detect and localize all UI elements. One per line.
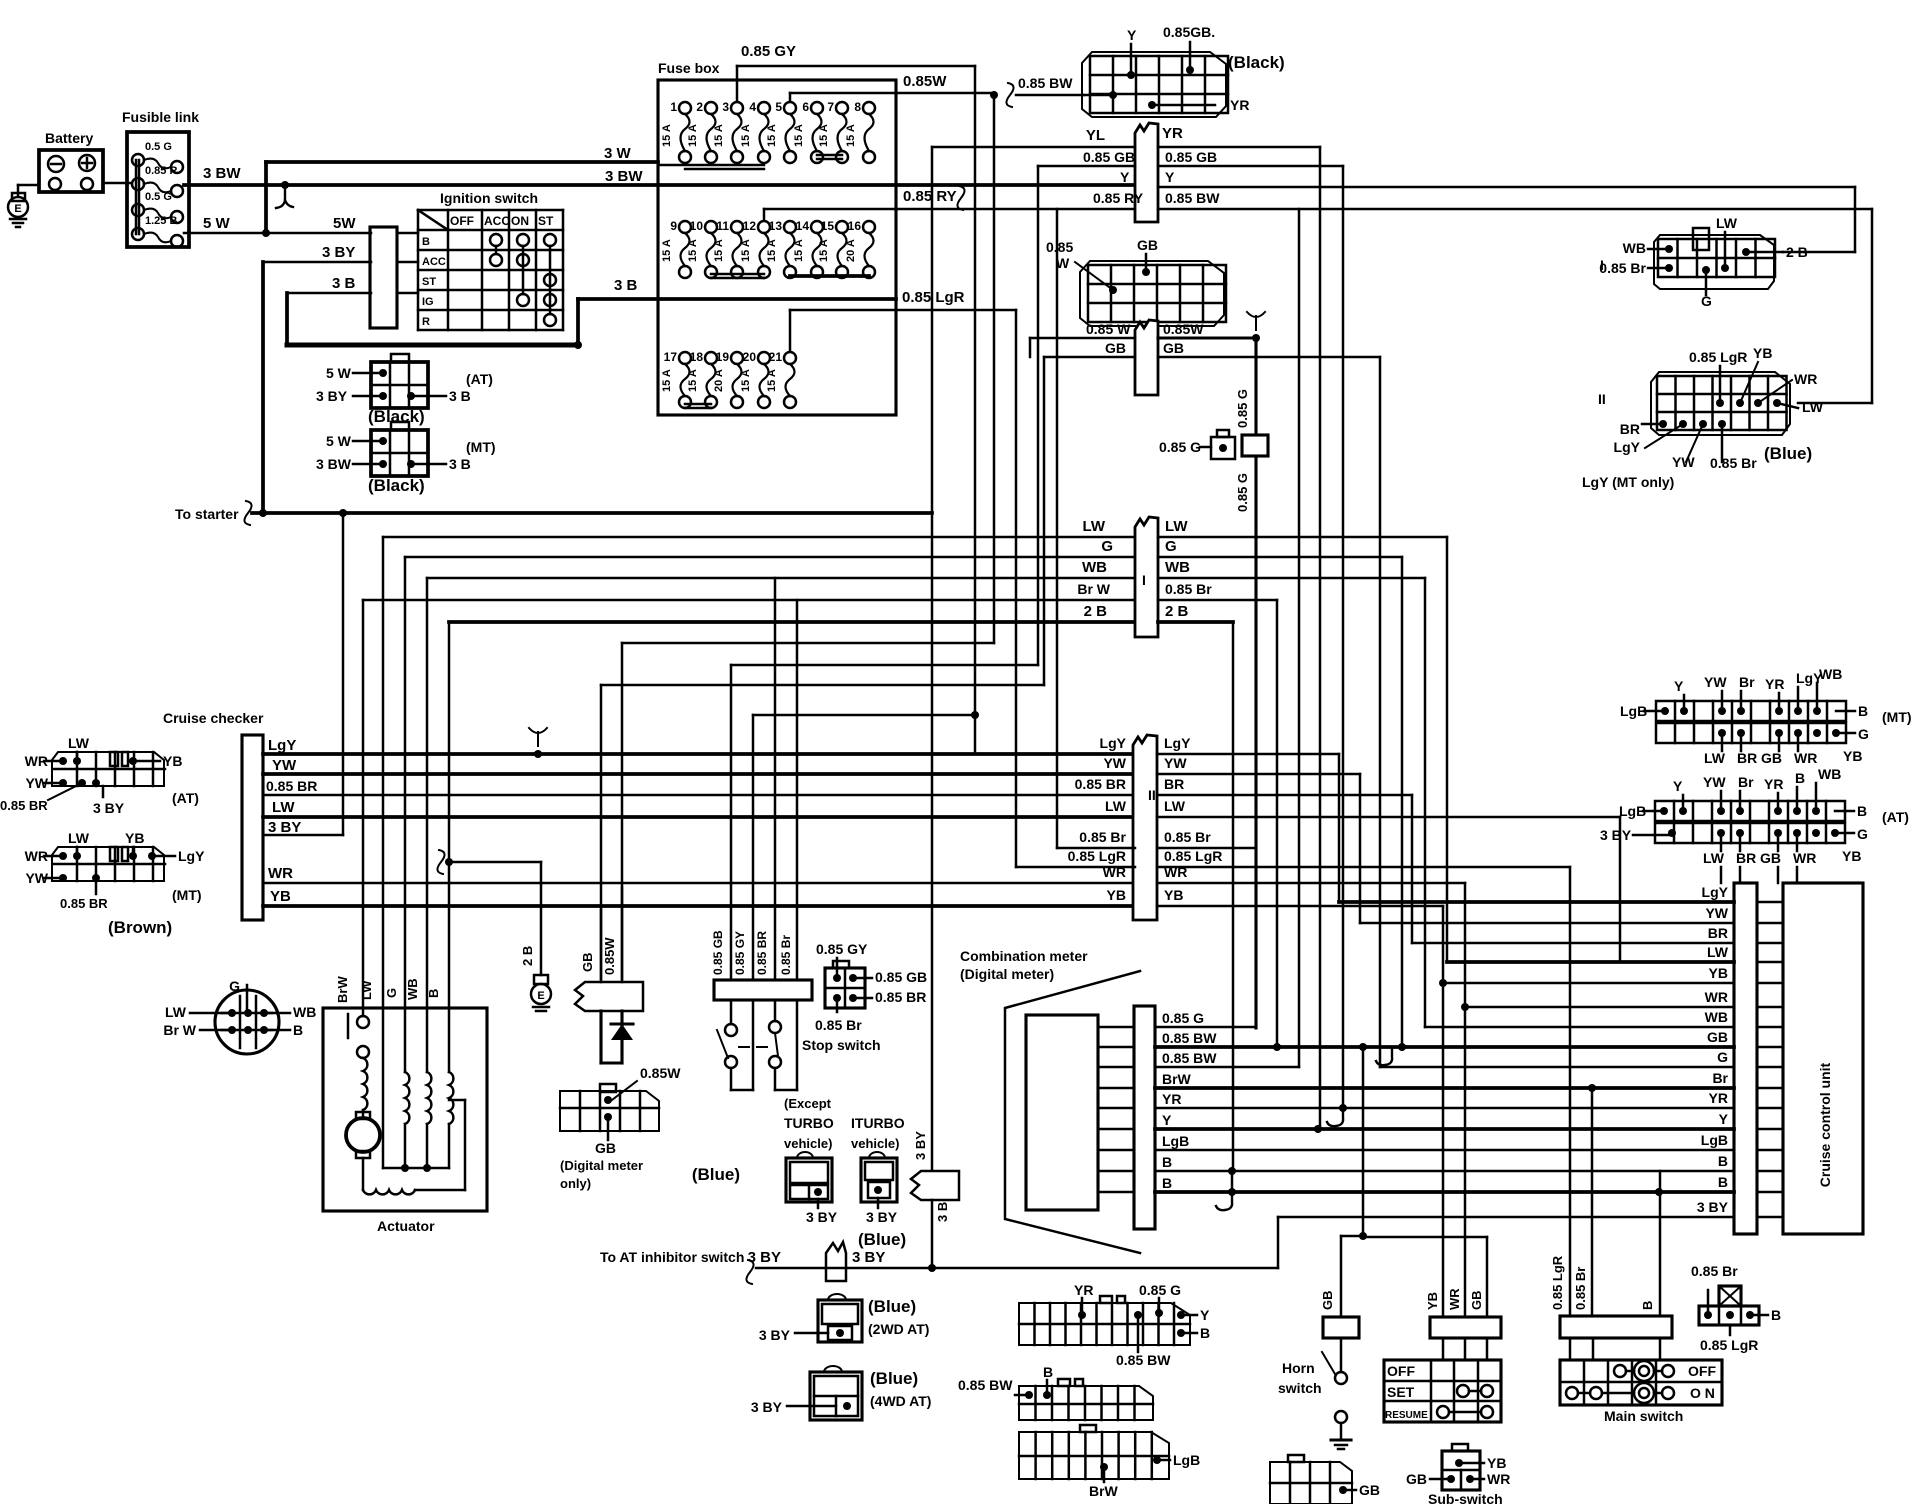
svg-text:0.85 BW: 0.85 BW <box>1162 1030 1217 1046</box>
svg-text:0.85W: 0.85W <box>602 937 617 975</box>
svg-text:WB: WB <box>1818 766 1841 782</box>
wires ignition to connector <box>397 232 418 235</box>
wire GB to horn <box>1359 1043 1367 1051</box>
svg-text:9: 9 <box>670 219 677 233</box>
fuse row2 bus <box>711 273 764 276</box>
connector (MT) black <box>371 430 428 476</box>
svg-text:0.85 G: 0.85 G <box>1235 389 1250 428</box>
svg-text:OFF: OFF <box>1387 1363 1415 1379</box>
wire LgY right of II <box>1157 753 1339 756</box>
svg-text:BR: BR <box>1737 750 1757 766</box>
wire YB long row <box>1443 982 1734 985</box>
svg-text:B: B <box>1162 1154 1172 1170</box>
svg-text:(MT): (MT) <box>466 439 496 455</box>
inline connector I <box>1135 517 1158 637</box>
wire 0.85G row <box>1155 1026 1254 1029</box>
wire YR meter row <box>1098 1107 1134 1110</box>
svg-text:ACC: ACC <box>484 214 510 228</box>
connector (Blue) 4WD AT <box>810 1372 862 1420</box>
svg-text:WB: WB <box>405 978 420 1000</box>
svg-text:YB: YB <box>1425 1292 1440 1310</box>
svg-text:(Blue): (Blue) <box>692 1165 740 1184</box>
actuator switch <box>362 1008 365 1016</box>
svg-text:3: 3 <box>722 100 729 114</box>
svg-text:(MT): (MT) <box>1882 709 1912 725</box>
wire YW right of II <box>1157 773 1360 776</box>
actuator motor <box>346 1118 380 1152</box>
svg-text:WB: WB <box>1082 559 1107 576</box>
svg-text:BR: BR <box>1708 925 1728 941</box>
wire 0.85BW vertical <box>1298 209 1301 1047</box>
svg-text:2 B: 2 B <box>520 946 535 966</box>
svg-text:LW: LW <box>1716 215 1738 231</box>
wire WB right of I <box>1158 577 1425 580</box>
horn switch <box>1340 1338 1343 1372</box>
svg-text:B: B <box>422 236 430 248</box>
connector I (WB/2B) right top <box>1654 235 1774 289</box>
svg-text:15 A: 15 A <box>818 124 830 147</box>
svg-text:5 W: 5 W <box>326 433 352 449</box>
svg-text:0.85 LgR: 0.85 LgR <box>1689 349 1747 365</box>
svg-text:YB: YB <box>270 888 291 905</box>
wire LgB meter row <box>1098 1149 1134 1152</box>
svg-text:0.85 BR: 0.85 BR <box>755 931 769 975</box>
wire BrW/Br row <box>1155 1086 1734 1090</box>
combination meter connector bar <box>1134 1006 1155 1229</box>
svg-text:LW: LW <box>68 830 90 846</box>
svg-text:3 BW: 3 BW <box>316 456 352 472</box>
wire 0.85 BW meter row <box>1098 1046 1134 1049</box>
wire 2B right of I <box>1158 620 1233 624</box>
svg-text:Br: Br <box>1739 674 1755 690</box>
svg-text:To starter: To starter <box>175 506 239 522</box>
fuse row1 bus <box>658 164 764 167</box>
svg-text:0.85 LgR: 0.85 LgR <box>902 289 965 306</box>
svg-text:LgY: LgY <box>268 737 296 754</box>
svg-text:0.85 W: 0.85 W <box>1086 321 1131 337</box>
svg-text:BrW: BrW <box>1089 1483 1119 1499</box>
svg-text:0.85 GB: 0.85 GB <box>1083 149 1135 165</box>
svg-text:2 B: 2 B <box>1165 603 1189 620</box>
svg-text:3 B: 3 B <box>449 388 471 404</box>
svg-text:11: 11 <box>716 219 729 233</box>
svg-text:(MT): (MT) <box>172 887 202 903</box>
svg-text:0.85 GY: 0.85 GY <box>816 941 868 957</box>
wire B to main switch <box>1659 1192 1662 1316</box>
svg-text:YB: YB <box>163 753 182 769</box>
connector YB/WR/GB <box>1430 1317 1501 1338</box>
wire 0.85Br left of II <box>1057 847 1135 850</box>
svg-text:1: 1 <box>670 100 677 114</box>
svg-text:5 W: 5 W <box>203 215 231 232</box>
connector (MT) 20-pin <box>1656 701 1846 721</box>
svg-text:ST: ST <box>422 276 436 288</box>
wire B meter row <box>1098 1170 1134 1173</box>
svg-text:0.85 BR: 0.85 BR <box>1075 776 1126 792</box>
svg-text:3 BY: 3 BY <box>806 1209 838 1225</box>
svg-text:WR: WR <box>1487 1471 1510 1487</box>
svg-text:GB: GB <box>595 1140 616 1156</box>
svg-text:15 A: 15 A <box>661 124 673 147</box>
svg-text:3 BW: 3 BW <box>605 168 643 185</box>
svg-text:To AT inhibitor switch: To AT inhibitor switch <box>600 1249 744 1265</box>
svg-text:Br W: Br W <box>163 1022 196 1038</box>
svg-text:WR: WR <box>1705 989 1728 1005</box>
svg-text:15 A: 15 A <box>661 369 673 392</box>
svg-text:TURBO: TURBO <box>784 1115 834 1131</box>
ignition switch connector bar <box>370 227 397 328</box>
svg-text:13: 13 <box>769 219 783 233</box>
svg-text:WR: WR <box>268 865 293 882</box>
svg-text:3 BY: 3 BY <box>316 388 348 404</box>
svg-text:14: 14 <box>796 219 810 233</box>
svg-text:II: II <box>1598 391 1606 407</box>
wire G right of I <box>1158 556 1402 559</box>
svg-text:I: I <box>1600 257 1604 273</box>
svg-text:3 BY: 3 BY <box>748 1249 781 1266</box>
svg-text:15 A: 15 A <box>740 239 752 262</box>
wire 0.85BW row 2 <box>1155 1066 1299 1069</box>
svg-text:YB: YB <box>1164 887 1183 903</box>
svg-text:15 A: 15 A <box>740 369 752 392</box>
svg-text:0.85 Br: 0.85 Br <box>1573 1267 1588 1310</box>
svg-text:LW: LW <box>68 735 90 751</box>
wire B meter row <box>1098 1191 1134 1194</box>
svg-text:YR: YR <box>1162 1091 1181 1107</box>
svg-text:YR: YR <box>1764 776 1783 792</box>
svg-text:WB: WB <box>1623 240 1646 256</box>
connector 0.85GY 4-pin <box>825 968 865 1008</box>
svg-text:GB: GB <box>1359 1482 1380 1498</box>
wire 0.85W riser <box>621 643 624 982</box>
wire 2B to ground branch <box>437 850 444 874</box>
svg-text:0.85 Br: 0.85 Br <box>815 1017 862 1033</box>
svg-text:vehicle): vehicle) <box>784 1136 832 1151</box>
svg-text:0.85 LgR: 0.85 LgR <box>1700 1337 1758 1353</box>
wire 0.85Br right of I <box>1158 599 1277 602</box>
svg-text:(Black): (Black) <box>368 476 425 495</box>
svg-text:3 BW: 3 BW <box>203 165 241 182</box>
svg-text:3 BY: 3 BY <box>93 800 125 816</box>
svg-text:3 BY: 3 BY <box>322 244 355 261</box>
svg-text:3 BY: 3 BY <box>852 1249 885 1266</box>
svg-text:0.85 BR: 0.85 BR <box>875 989 926 1005</box>
ground hook on 3BW <box>276 185 293 208</box>
wire LgY long row <box>1339 900 1734 904</box>
wire 3BY bottom row <box>1278 1216 1734 1219</box>
svg-text:WB: WB <box>1165 559 1190 576</box>
svg-text:LgY (MT only): LgY (MT only) <box>1582 474 1674 490</box>
svg-text:0.85 GB: 0.85 GB <box>1165 149 1217 165</box>
svg-text:G: G <box>384 988 399 998</box>
svg-text:BR: BR <box>1620 421 1640 437</box>
svg-text:Y: Y <box>1673 778 1683 794</box>
svg-text:GB: GB <box>1406 1471 1427 1487</box>
cruise control unit bar <box>1734 883 1757 1234</box>
svg-text:(Except: (Except <box>784 1096 832 1111</box>
connector bottom-left grid <box>1270 1462 1352 1504</box>
connector 18-pin (GB/0.85W) <box>1080 261 1224 326</box>
wire 0.85BW/GB row <box>1155 1045 1734 1049</box>
actuator box <box>323 1008 487 1211</box>
svg-text:W: W <box>1056 255 1070 271</box>
svg-text:15 A: 15 A <box>740 124 752 147</box>
svg-text:3 B: 3 B <box>332 275 356 292</box>
fuse row 2 (fuses 9-16) <box>679 221 691 233</box>
svg-text:Cruise control unit: Cruise control unit <box>1817 1062 1833 1187</box>
svg-text:GB: GB <box>1760 850 1781 866</box>
connector (Blue) turbo <box>786 1158 832 1202</box>
svg-text:0.85 Br: 0.85 Br <box>1599 260 1646 276</box>
svg-text:B: B <box>1795 770 1805 786</box>
svg-text:(AT): (AT) <box>466 371 493 387</box>
svg-text:ITURBO: ITURBO <box>851 1115 905 1131</box>
svg-text:LgY: LgY <box>1614 439 1641 455</box>
svg-text:(AT): (AT) <box>1882 809 1909 825</box>
svg-text:15 A: 15 A <box>845 124 857 147</box>
svg-text:Sub-switch: Sub-switch <box>1428 1491 1503 1504</box>
fuse row 3 (fuses 17-21) <box>679 352 691 364</box>
svg-text:3 BY: 3 BY <box>751 1399 783 1415</box>
wire Y row <box>1155 1127 1734 1131</box>
svg-text:0.85 LgR: 0.85 LgR <box>1068 848 1126 864</box>
svg-text:(Blue): (Blue) <box>870 1369 918 1388</box>
svg-text:Y: Y <box>1127 27 1137 43</box>
svg-text:6: 6 <box>802 100 809 114</box>
svg-text:R: R <box>422 316 430 328</box>
svg-text:19: 19 <box>716 350 730 364</box>
svg-text:LW: LW <box>1165 518 1188 535</box>
svg-text:WB: WB <box>1705 1009 1728 1025</box>
svg-text:ST: ST <box>538 214 554 228</box>
wire YL/YR row <box>932 146 1135 149</box>
wire 0.85 G meter row <box>1098 1026 1134 1029</box>
svg-text:3 W: 3 W <box>604 145 632 162</box>
svg-text:Y: Y <box>1674 678 1684 694</box>
svg-text:15 A: 15 A <box>713 239 725 262</box>
svg-text:WR: WR <box>1794 371 1817 387</box>
svg-text:3 BY: 3 BY <box>913 1131 928 1160</box>
connector (AT) brown <box>52 752 164 786</box>
svg-text:GB: GB <box>580 953 595 973</box>
svg-text:12: 12 <box>743 219 757 233</box>
svg-text:0.85 Br: 0.85 Br <box>1691 1263 1738 1279</box>
svg-text:ACC: ACC <box>422 256 446 268</box>
svg-text:YB: YB <box>1753 345 1772 361</box>
svg-text:17: 17 <box>664 350 678 364</box>
connector (Blue) 2WD AT <box>818 1300 862 1342</box>
svg-text:(Digital meter: (Digital meter <box>560 1158 643 1173</box>
svg-text:Br: Br <box>1738 774 1754 790</box>
svg-text:SET: SET <box>1387 1384 1415 1400</box>
wire 0.85BW to black connector <box>1006 83 1013 107</box>
svg-text:II: II <box>1148 787 1156 803</box>
svg-text:0.85 GY: 0.85 GY <box>733 931 747 975</box>
wire 2B to connector I <box>449 620 1135 624</box>
svg-text:0.85W: 0.85W <box>1163 321 1204 337</box>
svg-text:1.25 B: 1.25 B <box>145 215 177 227</box>
wire 0.85Br right of II <box>1157 847 1254 850</box>
svg-text:BrW: BrW <box>1162 1071 1192 1087</box>
connector (AT) 20-pin <box>1655 801 1845 821</box>
svg-text:(4WD AT): (4WD AT) <box>870 1393 931 1409</box>
svg-text:Main switch: Main switch <box>1604 1408 1683 1424</box>
svg-text:(Brown): (Brown) <box>108 918 172 937</box>
connector digital meter GB <box>560 1091 659 1131</box>
svg-text:15 A: 15 A <box>687 124 699 147</box>
svg-text:B: B <box>293 1022 303 1038</box>
wire GB row mid <box>1044 356 1135 359</box>
svg-text:YW: YW <box>272 757 297 774</box>
connector 24-pin (YR/Y/B) <box>1019 1303 1190 1345</box>
svg-text:WB: WB <box>1819 666 1842 682</box>
svg-text:BrW: BrW <box>335 976 350 1003</box>
svg-text:8: 8 <box>854 100 861 114</box>
svg-text:YW: YW <box>1103 755 1126 771</box>
svg-text:YB: YB <box>1843 748 1862 764</box>
fuse row 1 (fuses 1-8) <box>679 102 691 114</box>
wire LW right of I <box>1158 536 1447 539</box>
wire battery to fusible link <box>103 182 131 185</box>
wire 0.85Br to main switch <box>1591 1088 1594 1316</box>
svg-text:YR: YR <box>1230 97 1249 113</box>
svg-text:20 A: 20 A <box>713 369 725 392</box>
svg-text:Fusible link: Fusible link <box>122 109 199 125</box>
svg-text:Y: Y <box>1120 169 1130 185</box>
connector II (Blue) right <box>1651 372 1790 435</box>
svg-text:GB: GB <box>1320 1291 1335 1311</box>
wire G long row <box>1380 1066 1734 1069</box>
wire LW right of II <box>1157 816 1620 819</box>
wire YW long row <box>1360 922 1734 925</box>
svg-text:OFF: OFF <box>450 214 474 228</box>
svg-text:B: B <box>1718 1174 1728 1190</box>
svg-text:B: B <box>1200 1325 1210 1341</box>
svg-text:15 A: 15 A <box>661 239 673 262</box>
wire LW long row <box>1447 960 1734 964</box>
svg-text:(Black): (Black) <box>1228 53 1285 72</box>
svg-text:YR: YR <box>1074 1282 1093 1298</box>
svg-text:GB: GB <box>1707 1029 1728 1045</box>
svg-text:0.85 G: 0.85 G <box>1159 439 1201 455</box>
actuator bus <box>383 1167 449 1170</box>
wire Y meter row <box>1098 1128 1134 1131</box>
svg-text:0.85 BW: 0.85 BW <box>1162 1050 1217 1066</box>
svg-text:G: G <box>1717 1049 1728 1065</box>
svg-text:ON: ON <box>511 214 529 228</box>
svg-text:20: 20 <box>743 350 757 364</box>
svg-text:0.85 LgR: 0.85 LgR <box>1550 1255 1565 1310</box>
main switch table <box>1560 1360 1722 1405</box>
svg-text:Cruise checker: Cruise checker <box>163 710 264 726</box>
svg-text:LW: LW <box>165 1004 187 1020</box>
svg-text:(2WD AT): (2WD AT) <box>868 1321 929 1337</box>
svg-text:switch: switch <box>1278 1380 1322 1396</box>
svg-text:0.85 LgR: 0.85 LgR <box>1164 848 1222 864</box>
svg-text:Ignition switch: Ignition switch <box>440 190 538 206</box>
svg-text:E: E <box>14 203 21 215</box>
svg-text:0.85 G: 0.85 G <box>1162 1010 1204 1026</box>
svg-text:WB: WB <box>293 1004 316 1020</box>
wire WB long row <box>1425 1026 1734 1029</box>
svg-text:15 A: 15 A <box>766 124 778 147</box>
svg-text:Y: Y <box>1200 1307 1210 1323</box>
svg-text:(Blue): (Blue) <box>858 1230 906 1249</box>
wire GB branch to sub connector box <box>1363 1236 1487 1239</box>
svg-text:LgY: LgY <box>1702 884 1729 900</box>
svg-text:G: G <box>1165 538 1177 555</box>
svg-text:B: B <box>1857 803 1867 819</box>
wire G to connector I <box>405 556 1135 559</box>
svg-text:20 A: 20 A <box>845 239 857 262</box>
svg-text:YR: YR <box>1162 125 1183 142</box>
svg-text:21: 21 <box>769 350 783 364</box>
svg-text:0.85 Br: 0.85 Br <box>1165 581 1212 597</box>
svg-text:3 B: 3 B <box>614 277 638 294</box>
svg-text:7: 7 <box>827 100 834 114</box>
svg-text:YW: YW <box>1705 905 1728 921</box>
svg-text:G: G <box>1858 726 1869 742</box>
svg-text:YW: YW <box>1672 454 1695 470</box>
svg-text:0.85 GB: 0.85 GB <box>875 969 927 985</box>
svg-text:vehicle): vehicle) <box>851 1136 899 1151</box>
svg-text:0.85 RY: 0.85 RY <box>903 188 957 205</box>
wire 0.85LgR left of II <box>1016 866 1135 869</box>
wire GB riser <box>600 685 603 982</box>
svg-text:3 BY: 3 BY <box>1697 1199 1729 1215</box>
fuse GB (horn) <box>1323 1317 1359 1338</box>
svg-text:LW: LW <box>1164 798 1186 814</box>
svg-text:0.85 G: 0.85 G <box>1235 473 1250 512</box>
svg-text:LgB: LgB <box>1173 1452 1200 1468</box>
svg-text:IG: IG <box>422 296 434 308</box>
wire 0.85LgR right of II <box>1157 866 1570 869</box>
svg-text:YB: YB <box>125 830 144 846</box>
svg-text:15 A: 15 A <box>818 239 830 262</box>
actuator solenoid coils <box>404 1008 407 1072</box>
svg-text:15: 15 <box>821 219 835 233</box>
svg-text:Br: Br <box>1712 1070 1728 1086</box>
svg-text:E: E <box>537 990 544 1002</box>
wire WR long row <box>1465 1006 1734 1009</box>
svg-text:15 A: 15 A <box>766 369 778 392</box>
wire LW to connector I <box>383 536 1135 539</box>
connector (AT) black <box>371 362 428 408</box>
svg-text:YR: YR <box>1765 676 1784 692</box>
svg-text:2 B: 2 B <box>1786 244 1808 260</box>
svg-text:LW: LW <box>1704 750 1726 766</box>
svg-text:3 BY: 3 BY <box>268 819 301 836</box>
wire LgB row <box>1155 1149 1734 1152</box>
svg-text:G: G <box>229 978 240 994</box>
svg-text:YB: YB <box>1487 1455 1506 1471</box>
svg-text:2 B: 2 B <box>1084 603 1108 620</box>
inline connector II <box>1133 735 1157 920</box>
wire WR right of II <box>1157 882 1465 885</box>
svg-text:Y: Y <box>1162 1112 1172 1128</box>
inline connector 0.85W/GB <box>1135 320 1158 395</box>
svg-text:LgB: LgB <box>1701 1132 1728 1148</box>
svg-text:0.85 BR: 0.85 BR <box>266 778 317 794</box>
svg-text:0.85GB.: 0.85GB. <box>1163 24 1215 40</box>
actuator relay coil <box>363 1058 367 1110</box>
svg-text:4: 4 <box>749 100 756 114</box>
connector (MT) brown <box>52 847 164 881</box>
svg-text:G: G <box>1101 538 1113 555</box>
svg-text:Stop switch: Stop switch <box>802 1037 881 1053</box>
svg-text:WR: WR <box>1793 850 1816 866</box>
actuator bottom coil <box>362 1158 365 1190</box>
